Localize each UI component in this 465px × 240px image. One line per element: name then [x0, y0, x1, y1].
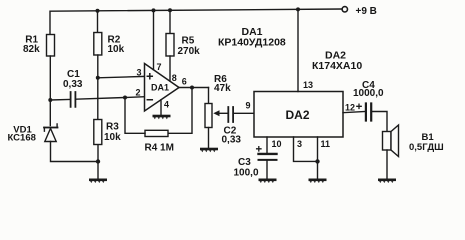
svg-text:10k: 10k	[104, 132, 121, 143]
svg-text:КС168: КС168	[8, 133, 36, 144]
svg-text:13: 13	[303, 80, 313, 90]
svg-text:1000,0: 1000,0	[353, 88, 384, 99]
svg-text:DA1: DA1	[151, 83, 169, 93]
svg-text:12: 12	[345, 103, 355, 113]
svg-text:DA2: DA2	[286, 108, 310, 122]
svg-text:82k: 82k	[23, 44, 40, 55]
svg-text:R4 1M: R4 1M	[145, 143, 174, 154]
svg-text:270k: 270k	[178, 46, 201, 57]
svg-text:0,33: 0,33	[63, 79, 83, 90]
svg-text:3: 3	[137, 68, 142, 78]
svg-text:К174ХА10: К174ХА10	[312, 60, 362, 72]
svg-text:8: 8	[172, 73, 177, 83]
svg-text:+9 В: +9 В	[356, 6, 377, 17]
svg-text:3: 3	[297, 139, 302, 149]
svg-text:2: 2	[136, 88, 141, 98]
svg-text:100,0: 100,0	[234, 167, 259, 178]
svg-text:11: 11	[321, 139, 331, 149]
svg-text:9: 9	[246, 101, 251, 111]
svg-text:0,5ГДШ: 0,5ГДШ	[409, 142, 444, 153]
svg-text:10: 10	[272, 139, 282, 149]
svg-text:4: 4	[164, 100, 169, 110]
svg-text:10k: 10k	[108, 44, 125, 55]
svg-text:47k: 47k	[214, 83, 231, 94]
svg-text:R3: R3	[106, 122, 119, 133]
svg-text:0,33: 0,33	[222, 134, 242, 145]
svg-text:7: 7	[157, 62, 162, 72]
svg-text:R5: R5	[182, 36, 195, 47]
svg-text:КР140УД1208: КР140УД1208	[218, 37, 286, 49]
svg-text:6: 6	[182, 77, 187, 87]
